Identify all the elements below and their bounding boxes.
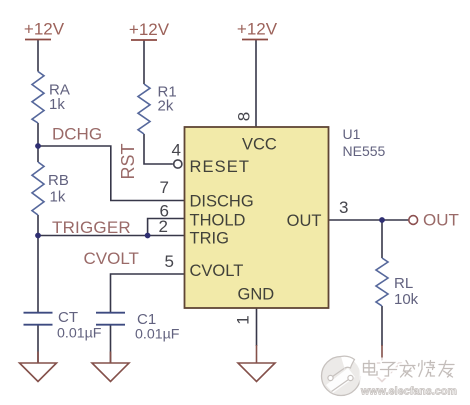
- svg-text:TRIGGER: TRIGGER: [52, 218, 131, 237]
- svg-text:5: 5: [165, 252, 174, 271]
- svg-text:OUT: OUT: [287, 212, 322, 230]
- svg-text:1k: 1k: [50, 189, 66, 206]
- svg-text:+12V: +12V: [24, 20, 65, 39]
- svg-text:8: 8: [235, 112, 254, 121]
- svg-text:2k: 2k: [158, 98, 174, 115]
- svg-text:1: 1: [234, 315, 253, 324]
- svg-text:THOLD: THOLD: [190, 212, 246, 230]
- svg-text:3: 3: [339, 198, 348, 217]
- svg-text:GND: GND: [238, 286, 275, 304]
- svg-text:0.01µF: 0.01µF: [135, 327, 180, 343]
- svg-text:RB: RB: [48, 172, 69, 189]
- svg-text:1k: 1k: [49, 96, 65, 113]
- svg-text:CT: CT: [58, 309, 78, 326]
- svg-text:2: 2: [159, 217, 168, 236]
- svg-text:VCC: VCC: [242, 136, 277, 154]
- svg-text:OUT: OUT: [423, 211, 459, 230]
- svg-text:4: 4: [172, 141, 181, 160]
- svg-text:C1: C1: [137, 311, 156, 328]
- svg-text:RL: RL: [394, 275, 413, 292]
- svg-text:DISCHG: DISCHG: [190, 193, 254, 211]
- svg-text:NE555: NE555: [343, 143, 386, 159]
- svg-text:RST: RST: [118, 143, 138, 179]
- svg-text:+12V: +12V: [129, 20, 170, 39]
- svg-text:DCHG: DCHG: [52, 125, 102, 144]
- svg-text:U1: U1: [343, 126, 361, 142]
- svg-text:TRIG: TRIG: [190, 230, 229, 248]
- svg-text:0.01µF: 0.01µF: [57, 326, 102, 342]
- svg-text:CVOLT: CVOLT: [190, 262, 244, 280]
- svg-text:+12V: +12V: [237, 20, 278, 39]
- svg-text:7: 7: [160, 178, 169, 197]
- svg-text:www.elecfans.com: www.elecfans.com: [360, 386, 457, 398]
- svg-text:10k: 10k: [394, 291, 419, 308]
- svg-text:RESET: RESET: [190, 158, 251, 176]
- svg-text:CVOLT: CVOLT: [84, 249, 139, 268]
